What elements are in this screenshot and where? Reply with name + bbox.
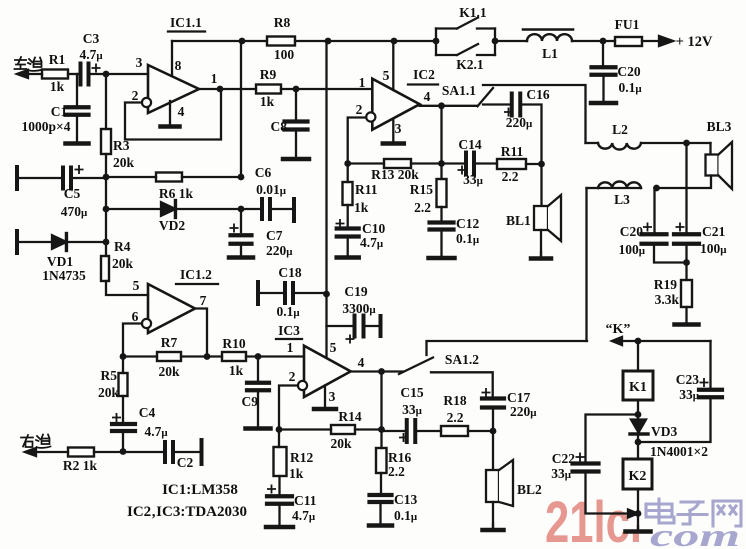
svg-text:K2: K2 xyxy=(629,469,647,484)
resistor R9 xyxy=(256,85,281,94)
svg-text:20k: 20k xyxy=(158,364,180,379)
svg-text:IC2‚IC3:TDA2030: IC2‚IC3:TDA2030 xyxy=(127,504,247,520)
node R10/C9 xyxy=(255,353,262,360)
svg-text:C20: C20 xyxy=(620,224,643,239)
ground under C12 xyxy=(440,230,442,259)
wire SA1.2 lower contact to C17 xyxy=(431,372,493,399)
wire L1 to FU1 xyxy=(572,40,615,42)
wire trunk to R6 xyxy=(106,176,156,178)
ground under BL2 xyxy=(492,524,494,530)
node input/R3 junction xyxy=(103,71,110,78)
svg-text:2: 2 xyxy=(132,88,139,103)
svg-text:C8: C8 xyxy=(271,119,288,134)
wire IC1.2 output xyxy=(195,309,207,357)
svg-text:L1: L1 xyxy=(542,46,558,61)
polarity + of C17 xyxy=(482,389,489,396)
wire R18 to BL2 node xyxy=(468,430,493,432)
polarity + of C5 xyxy=(75,166,82,173)
capacitor C14 xyxy=(442,162,467,164)
svg-text:4.7μ: 4.7μ xyxy=(360,235,384,250)
svg-text:0.1μ: 0.1μ xyxy=(276,304,300,319)
wire R9 to IC2 pin1 xyxy=(281,88,372,90)
svg-text:C15: C15 xyxy=(400,385,423,400)
wire IC2 output xyxy=(420,105,478,107)
node C20b/C21/R19 xyxy=(683,259,690,266)
svg-text:33μ: 33μ xyxy=(402,402,423,417)
svg-text:1k: 1k xyxy=(229,363,244,378)
resistor R11 (2.2) xyxy=(497,159,526,169)
wire terminal to C5 xyxy=(17,177,63,179)
polarity + of C11 xyxy=(268,485,275,492)
svg-text:3.3k: 3.3k xyxy=(655,292,680,307)
wire R14 to output node xyxy=(355,428,382,430)
resistor R6 xyxy=(156,173,182,182)
svg-text:C7: C7 xyxy=(266,228,283,243)
resistor R10 xyxy=(222,352,246,361)
svg-text:20k: 20k xyxy=(330,436,352,451)
wire R11 to BL1 node xyxy=(526,163,542,165)
underline IC1.2 xyxy=(176,283,218,285)
svg-text:20k: 20k xyxy=(112,256,134,271)
wire fb node to R14 xyxy=(279,428,331,430)
wire node to R3 xyxy=(105,74,107,129)
capacitor C8 to ground xyxy=(295,89,297,122)
svg-text:C3: C3 xyxy=(83,31,100,46)
ground under IC1.1 pin4 xyxy=(169,101,171,127)
polarity + of C16 xyxy=(505,108,512,115)
diode VD1 xyxy=(52,235,66,249)
svg-text:1: 1 xyxy=(359,75,366,90)
wire K1 to VD3 node xyxy=(637,400,639,419)
node IC3 output xyxy=(378,368,385,375)
arrow +12V terminal xyxy=(659,36,673,46)
capacitor C19 xyxy=(327,325,355,327)
resistor R4 xyxy=(101,256,109,281)
svg-text:C9: C9 xyxy=(242,394,259,409)
ground under C8 xyxy=(295,130,297,160)
svg-text:5: 5 xyxy=(383,68,390,83)
svg-text:1k: 1k xyxy=(354,200,369,215)
svg-text:C13: C13 xyxy=(394,492,417,507)
wire rail R8 to K1.1 block xyxy=(295,40,436,42)
wire IC2 pin5 supply drop xyxy=(392,41,394,90)
svg-text:IC1.1: IC1.1 xyxy=(170,15,202,30)
node C5 row xyxy=(103,174,110,181)
fuse FU1 xyxy=(615,37,642,46)
svg-text:R7: R7 xyxy=(161,335,178,350)
svg-text:1N4735: 1N4735 xyxy=(42,268,86,283)
wire long supply drop x=326.5 to IC3 pin5 xyxy=(325,41,327,358)
capacitor C11 to ground xyxy=(278,476,280,495)
svg-text:IC1.2: IC1.2 xyxy=(180,267,212,282)
svg-text:C11: C11 xyxy=(294,493,317,508)
svg-text:220μ: 220μ xyxy=(510,404,537,419)
svg-text:R15: R15 xyxy=(410,182,433,197)
svg-text:R11: R11 xyxy=(501,144,524,159)
relay coil K2 xyxy=(623,459,652,489)
capacitor C10 to ground xyxy=(347,205,349,227)
svg-text:1000p×4: 1000p×4 xyxy=(22,119,71,134)
wire VD3 node to C23 bottom xyxy=(638,398,711,442)
wire top supply rail from IC1 pin8 to R8 xyxy=(172,40,267,42)
svg-text:1N4001×2: 1N4001×2 xyxy=(650,444,708,459)
node K/K1 xyxy=(635,338,642,345)
svg-text:1k: 1k xyxy=(50,79,65,94)
svg-text:R13 20k: R13 20k xyxy=(371,167,419,182)
arrow right-channel input xyxy=(25,448,36,456)
svg-text:1k: 1k xyxy=(260,94,275,109)
resistor R7 xyxy=(157,352,181,361)
svg-text:220μ: 220μ xyxy=(266,243,293,258)
ground bar under C1 xyxy=(76,115,78,144)
wire SA1.2 contact up to L3 wire xyxy=(427,341,588,355)
node FU1/C20 junction xyxy=(600,38,607,45)
node K-block right xyxy=(492,38,499,45)
capacitor C2 xyxy=(163,442,167,462)
node R9/C8 xyxy=(293,86,300,93)
svg-text:3: 3 xyxy=(395,121,402,136)
speaker BL2 xyxy=(492,431,494,470)
capacitor C20b (100u) xyxy=(653,188,655,235)
node IC2 pin2/R13/R11 xyxy=(344,160,351,167)
svg-text:7: 7 xyxy=(200,293,207,308)
svg-text:1: 1 xyxy=(211,71,218,86)
wire IC2 output down to feedback row xyxy=(440,106,442,164)
terminal C18 left xyxy=(256,282,260,304)
node IC1.1 output xyxy=(217,86,224,93)
svg-text:+ 12V: + 12V xyxy=(676,34,713,50)
node pin2/R12/R14 xyxy=(276,426,283,433)
svg-text:R5: R5 xyxy=(101,368,118,383)
wire K2 to ground xyxy=(637,489,639,529)
resistor R13 xyxy=(384,159,411,168)
wire C3 to IC1.1 pin3 node xyxy=(89,73,149,75)
svg-text:C23: C23 xyxy=(676,372,699,387)
svg-text:IC2: IC2 xyxy=(413,67,435,82)
svg-text:“K”: “K” xyxy=(606,322,631,337)
svg-text:3: 3 xyxy=(329,389,336,404)
ground under C7 xyxy=(240,244,242,258)
resistor R11 (1k) vertical xyxy=(347,164,349,183)
node R18/C17/BL2 xyxy=(490,428,497,435)
wire IC1.2 pin6 feedback xyxy=(123,324,142,357)
IC2 inverting input bubble xyxy=(366,112,375,121)
wire VD3 node to C22 xyxy=(586,415,639,465)
svg-text:R2 1k: R2 1k xyxy=(63,458,98,473)
svg-text:C19: C19 xyxy=(344,284,367,299)
op-amp IC1.2 xyxy=(148,284,195,333)
capacitor C5 xyxy=(61,168,65,189)
svg-text:BL2: BL2 xyxy=(517,482,542,497)
node L3/C20b xyxy=(653,185,660,192)
resistor R5 vertical xyxy=(122,357,124,374)
wire SA1.1 contact to L2 branch xyxy=(483,85,586,143)
terminal input C5 row xyxy=(15,167,19,189)
svg-text:VD1: VD1 xyxy=(47,254,73,269)
diode VD2 xyxy=(161,202,175,216)
polarity + of C21 xyxy=(676,223,683,230)
capacitor C20 (0.1u decoupling at fuse) xyxy=(602,41,604,68)
resistor R19 vertical xyxy=(685,263,687,281)
wire K node to C23 branch xyxy=(621,340,711,342)
wire L3 to SA1.2 feed vertical xyxy=(585,188,587,341)
ground under C9 xyxy=(257,390,259,429)
arrow into K2 bottom node xyxy=(628,510,638,518)
ground under C11 xyxy=(278,504,280,527)
svg-text:220μ: 220μ xyxy=(506,115,533,130)
svg-text:2.2: 2.2 xyxy=(414,200,431,215)
wire IC3 output down to fb row xyxy=(380,372,382,430)
inductor L1 xyxy=(527,34,572,41)
node VD3/C23 xyxy=(635,439,642,446)
IC1.2 inverting input bubble xyxy=(142,319,151,328)
svg-text:K1: K1 xyxy=(629,380,647,395)
wire fb node to R13 xyxy=(348,162,384,164)
capacitor C7 to ground xyxy=(240,209,242,232)
capacitor C21 xyxy=(685,143,687,235)
svg-text:C21: C21 xyxy=(702,224,725,239)
wire IC2 pin2 to feedback node xyxy=(348,118,366,164)
polarity + of C4 xyxy=(113,414,120,421)
node K-block left xyxy=(433,38,440,45)
wire BL3 bottom to L3 row xyxy=(657,176,712,189)
svg-text:0.1μ: 0.1μ xyxy=(394,508,418,523)
svg-text:0.1μ: 0.1μ xyxy=(618,80,642,95)
wire R1 to C3 xyxy=(68,73,81,75)
svg-text:com: com xyxy=(650,517,740,549)
capacitor C15 xyxy=(382,430,408,432)
IC3 inverting input bubble xyxy=(298,381,307,390)
resistor R15 vertical xyxy=(440,164,442,180)
capacitor C13 to ground xyxy=(380,473,382,493)
svg-text:C20: C20 xyxy=(617,64,640,79)
node K1/C22/VD3 xyxy=(635,411,642,418)
wire IC1.1 output xyxy=(199,88,256,90)
svg-text:33μ: 33μ xyxy=(679,387,700,402)
capacitor C6 xyxy=(241,208,262,210)
svg-text:IC1:LM358: IC1:LM358 xyxy=(162,482,238,498)
terminal input VD1 row xyxy=(15,231,19,253)
svg-text:C5: C5 xyxy=(64,186,81,201)
speaker BL1 xyxy=(540,164,542,206)
polarity + of C20b xyxy=(644,223,651,230)
svg-text:C1: C1 xyxy=(51,104,68,119)
svg-text:1: 1 xyxy=(287,340,294,355)
node VD1 row xyxy=(103,239,110,246)
svg-text:470μ: 470μ xyxy=(61,204,88,219)
fraction bar IC2/4 xyxy=(408,83,438,85)
capacitor C23 xyxy=(699,388,722,392)
svg-text:4.7μ: 4.7μ xyxy=(79,47,103,62)
node rail/IC3-supply junction xyxy=(325,38,332,45)
wire K-block left vertical xyxy=(435,29,437,56)
terminal C6 right xyxy=(292,199,296,221)
wire rail drop to C6/C7 node (x=241) xyxy=(240,41,242,177)
svg-text:C22: C22 xyxy=(552,451,575,466)
node C18 tap xyxy=(323,291,330,298)
svg-text:R16: R16 xyxy=(388,450,411,465)
svg-text:R9: R9 xyxy=(260,67,277,82)
wire IC3 pin2 to fb node xyxy=(279,386,298,430)
svg-text:C6: C6 xyxy=(255,165,272,180)
resistor R3 xyxy=(101,129,111,154)
svg-text:20k: 20k xyxy=(98,385,120,400)
svg-text:100μ: 100μ xyxy=(619,242,646,257)
polarity + of C14 xyxy=(458,166,465,173)
svg-text:C2: C2 xyxy=(177,455,194,470)
relay coil K1 xyxy=(637,341,639,371)
svg-text:R19: R19 xyxy=(654,277,677,292)
resistor R12 vertical xyxy=(278,430,280,448)
svg-text:4: 4 xyxy=(358,355,365,370)
svg-text:C4: C4 xyxy=(139,405,156,420)
terminal C19 right xyxy=(379,316,383,336)
wire K-block to L1 xyxy=(495,40,527,42)
switch SA1.1 arm xyxy=(478,88,494,106)
svg-text:L3: L3 xyxy=(614,192,630,207)
node right-channel row/C4 xyxy=(120,448,127,455)
ground under C10 xyxy=(347,237,349,258)
capacitor C17 xyxy=(482,396,504,400)
svg-text:SA1.2: SA1.2 xyxy=(445,352,479,367)
capacitor C16 xyxy=(483,103,512,105)
node L2/BL3/C21 xyxy=(683,140,690,147)
ground under R19 xyxy=(685,307,687,325)
polarity + of C22 xyxy=(576,453,583,460)
svg-text:BL3: BL3 xyxy=(707,119,732,134)
svg-text:R18: R18 xyxy=(443,393,466,408)
polarity + of C15 xyxy=(400,434,407,441)
svg-text:C14: C14 xyxy=(458,137,481,152)
switch SA1.2 arm xyxy=(399,358,433,375)
wire FU1 to +12V arrow xyxy=(642,40,662,42)
wire IC1.1 feedback loop pin1 to pin2 xyxy=(125,89,221,140)
node rail/IC2-pin5 junction xyxy=(391,38,398,45)
svg-text:100: 100 xyxy=(274,47,295,62)
svg-text:VD3: VD3 xyxy=(651,424,677,439)
wire trunk to VD2 xyxy=(106,208,161,210)
svg-text:R12: R12 xyxy=(290,450,313,465)
svg-text:4.7μ: 4.7μ xyxy=(292,508,316,523)
node pin6/R7/R5 xyxy=(120,353,127,360)
svg-text:C17: C17 xyxy=(507,390,530,405)
svg-text:2.2: 2.2 xyxy=(388,464,405,479)
svg-text:5: 5 xyxy=(330,340,337,355)
svg-text:BL1: BL1 xyxy=(506,213,531,228)
underline IC3 xyxy=(276,338,302,340)
polarity + of C10 xyxy=(336,220,343,227)
polarity + of C7 xyxy=(230,224,237,231)
wire VD3 to K2 xyxy=(637,434,639,459)
watermark dianziwang glyphs xyxy=(646,499,741,526)
svg-text:R6 1k: R6 1k xyxy=(159,186,194,201)
svg-text:3: 3 xyxy=(136,55,143,70)
wire K-block right vertical xyxy=(494,29,496,56)
glyph you-dao (right channel) text xyxy=(21,435,51,448)
svg-text:IC3: IC3 xyxy=(278,323,300,338)
resistor R2 xyxy=(68,448,94,457)
polarity + of C23 xyxy=(700,379,707,386)
svg-text:4: 4 xyxy=(178,104,185,119)
wire VD2 to C6/C7 node xyxy=(175,208,241,210)
speaker BL3 xyxy=(709,143,711,155)
op-amp IC3 TDA2030 xyxy=(304,346,351,397)
node C16/R11/BL1 xyxy=(538,161,545,168)
svg-text:C18: C18 xyxy=(278,265,301,280)
underline IC1.1 xyxy=(168,30,205,32)
wire R10 to IC3 pin1 xyxy=(246,355,304,357)
op-amp IC1.1 xyxy=(148,65,199,113)
svg-text:L2: L2 xyxy=(612,122,628,137)
svg-text:C12: C12 xyxy=(456,216,479,231)
wire input to R2 xyxy=(34,451,68,453)
svg-text:FU1: FU1 xyxy=(615,17,640,32)
node IC3 fb row xyxy=(378,426,385,433)
svg-text:0.01μ: 0.01μ xyxy=(256,182,287,197)
node rail/C7-branch junction xyxy=(239,38,246,45)
wire C5 to trunk xyxy=(71,177,106,179)
wire R2 to C2 xyxy=(94,451,164,453)
svg-text:0.1μ: 0.1μ xyxy=(456,231,480,246)
polarity + of C19 xyxy=(346,335,353,342)
resistor R1 xyxy=(42,70,68,79)
svg-text:2: 2 xyxy=(356,102,363,117)
svg-text:R4: R4 xyxy=(114,239,131,254)
resistor R14 xyxy=(331,425,355,434)
svg-text:3300μ: 3300μ xyxy=(342,301,376,316)
svg-text:4: 4 xyxy=(424,89,431,104)
svg-text:C16: C16 xyxy=(526,87,549,102)
wire R7 to output node xyxy=(181,355,222,357)
svg-text:C10: C10 xyxy=(362,221,385,236)
capacitor C22 xyxy=(573,461,599,465)
wire R4 to IC1.2 pin5 xyxy=(106,281,148,295)
inductor L3 xyxy=(598,187,641,189)
resistor R8 xyxy=(267,37,295,46)
node R6/vertical xyxy=(238,174,245,181)
ground under C20 xyxy=(602,75,604,103)
svg-text:R14: R14 xyxy=(338,409,361,424)
node IC2 output xyxy=(438,102,445,109)
svg-text:33μ: 33μ xyxy=(463,172,484,187)
node K2 bottom rail xyxy=(635,510,642,517)
svg-text:R11: R11 xyxy=(355,182,378,197)
IC1.1 inverting input bubble xyxy=(142,98,151,107)
ground under C13 xyxy=(379,502,381,526)
wire IC1.1 pin8 supply drop xyxy=(171,41,173,76)
resistor R18 xyxy=(441,426,468,436)
wire R6 to C7 node trunk xyxy=(182,176,241,178)
svg-text:8: 8 xyxy=(175,58,182,73)
svg-text:5: 5 xyxy=(133,278,140,293)
svg-text:1k: 1k xyxy=(289,466,304,481)
wire node to R7 xyxy=(123,355,157,357)
ground under BL1 xyxy=(540,252,542,259)
svg-text:2: 2 xyxy=(289,369,296,384)
wire VD1 to trunk xyxy=(68,241,106,243)
svg-text:R3: R3 xyxy=(113,138,130,153)
switch K2.1 (relay contact) xyxy=(436,54,457,56)
op-amp IC2 TDA2030 xyxy=(372,79,419,130)
svg-text:2.2: 2.2 xyxy=(447,410,464,425)
node VD2/C6/C7 xyxy=(238,206,245,213)
ground under IC2 pin3 xyxy=(392,119,394,144)
svg-text:R8: R8 xyxy=(274,15,291,30)
wire R13 to output node xyxy=(411,162,442,164)
ground under K2 xyxy=(637,526,639,532)
svg-text:20k: 20k xyxy=(113,155,135,170)
wire R3 down trunk to R4 xyxy=(105,154,107,256)
